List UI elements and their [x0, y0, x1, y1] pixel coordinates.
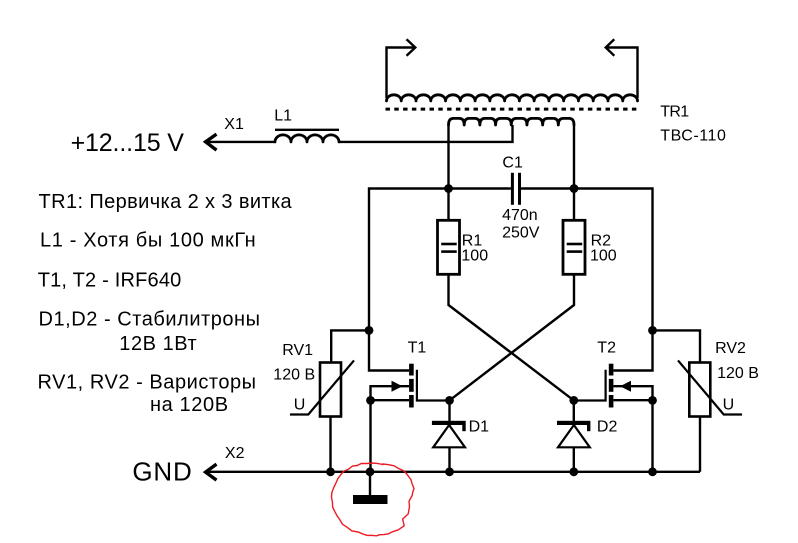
connector X2 arrow	[206, 464, 217, 480]
resistor R1	[438, 189, 460, 275]
svg-text:TR1: TR1	[660, 104, 689, 121]
svg-text:GND: GND	[132, 457, 192, 487]
wire ground rail	[205, 471, 700, 473]
wire R2 to T1 gate (diagonal)	[450, 274, 575, 400]
svg-text:L1: L1	[274, 108, 292, 125]
svg-text:250V: 250V	[502, 225, 540, 242]
node primary right / R2 top	[570, 184, 579, 193]
wire top rail right	[574, 125, 653, 330]
svg-text:T2: T2	[597, 340, 616, 357]
wire T2 source to ground	[651, 400, 653, 472]
svg-text:+12...15 V: +12...15 V	[71, 129, 185, 157]
svg-text:X2: X2	[225, 445, 245, 462]
T2 drain lead	[613, 330, 652, 370]
node T1 drain / RV1	[365, 326, 374, 335]
ground symbol	[353, 472, 388, 504]
capacitor C1	[511, 173, 521, 205]
varistor RV2	[653, 330, 743, 471]
transistor T2	[574, 330, 653, 471]
wire L1 to center tap	[339, 125, 513, 142]
svg-text:X1: X1	[224, 116, 244, 133]
svg-text:120 В: 120 В	[717, 365, 759, 382]
node T1 source	[366, 396, 375, 405]
svg-text:C1: C1	[502, 154, 523, 171]
svg-text:RV1, RV2 - Варисторы: RV1, RV2 - Варисторы	[38, 372, 257, 394]
svg-text:RV2: RV2	[715, 340, 746, 357]
T1 source lead	[371, 399, 410, 401]
inductor L1	[275, 130, 339, 142]
varistor RV1	[290, 330, 369, 471]
wire secondary left lead with arrow	[387, 39, 416, 98]
T2 gate plate	[574, 370, 606, 401]
T2 source lead	[613, 399, 652, 401]
svg-text:T1: T1	[408, 340, 427, 357]
T2 body arrow	[613, 386, 652, 400]
svg-text:U: U	[294, 397, 306, 414]
T1 channel bars	[409, 364, 414, 376]
svg-text:D1: D1	[469, 419, 490, 436]
node ground D1	[445, 467, 454, 476]
wire top rail left	[369, 125, 449, 330]
red annotation loop	[332, 463, 415, 536]
svg-text:100: 100	[461, 247, 488, 264]
node T2 gate / D2	[569, 396, 578, 405]
node primary left / R1 top	[444, 184, 453, 193]
svg-text:на 120В: на 120В	[150, 394, 229, 416]
svg-text:L1 - Хотя бы 100 мкГн: L1 - Хотя бы 100 мкГн	[40, 229, 256, 251]
node ground D2	[569, 467, 578, 476]
wire secondary right lead with arrow	[606, 39, 638, 98]
svg-text:TR1: Первичка 2 х 3 витка: TR1: Первичка 2 х 3 витка	[39, 191, 293, 213]
svg-text:470n: 470n	[502, 207, 538, 224]
transistor T1	[369, 330, 450, 471]
connector X1 arrow	[206, 134, 217, 150]
resistor R2	[563, 189, 585, 275]
zener diode D1	[432, 400, 466, 471]
svg-text:U: U	[723, 396, 735, 413]
node T2 drain / RV2	[648, 326, 657, 335]
svg-text:RV1: RV1	[282, 342, 313, 359]
T1 body arrow	[371, 386, 410, 400]
transformer TR1 primary winding	[449, 118, 575, 125]
node T2 source	[648, 396, 657, 405]
node ground T1 source	[366, 467, 375, 476]
wire T1 source to ground	[369, 400, 371, 472]
wire X1 feed	[205, 141, 275, 143]
node ground T2 source	[648, 467, 657, 476]
zener diode D2	[557, 400, 590, 471]
wire R1 to T2 gate (diagonal)	[449, 274, 574, 400]
svg-text:T1, T2 - IRF640: T1, T2 - IRF640	[38, 270, 182, 292]
svg-text:ТВС-110: ТВС-110	[660, 128, 726, 145]
svg-text:100: 100	[590, 247, 617, 264]
transformer TR1 secondary winding	[387, 95, 638, 101]
node T1 gate / D1	[445, 396, 454, 405]
transformer core (dashed)	[386, 108, 641, 111]
node ground RV1	[326, 467, 335, 476]
T2 channel bars	[609, 364, 614, 376]
svg-text:D2: D2	[597, 419, 618, 436]
T1 drain lead	[369, 330, 409, 370]
T1 gate plate	[417, 370, 450, 401]
svg-text:D1,D2 - Стабилитроны: D1,D2 - Стабилитроны	[39, 308, 261, 330]
svg-text:120 В: 120 В	[273, 367, 315, 384]
svg-text:12В 1Вт: 12В 1Вт	[119, 333, 197, 355]
